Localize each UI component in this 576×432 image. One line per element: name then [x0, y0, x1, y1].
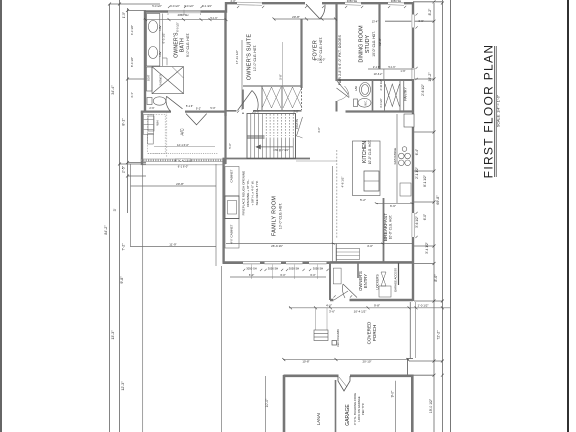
svg-text:8'-1 1/2": 8'-1 1/2": [423, 175, 427, 187]
svg-text:6'-4": 6'-4": [415, 149, 419, 155]
svg-text:1'-5": 1'-5": [122, 12, 126, 18]
garage left wall: [283, 375, 286, 432]
svg-text:PORCH: PORCH: [372, 325, 377, 342]
svg-text:26'-9 16": 26'-9 16": [271, 244, 283, 248]
svg-text:4'-0": 4'-0": [230, 0, 235, 3]
bath bottom wall: [141, 110, 171, 112]
svg-text:3050 SH: 3050 SH: [289, 267, 300, 271]
coats closet: [296, 114, 303, 159]
svg-text:69'-8": 69'-8": [436, 195, 440, 205]
svg-text:COATS: COATS: [295, 119, 299, 129]
svg-text:2'-10 1/2": 2'-10 1/2": [379, 79, 383, 90]
svg-text:3'-1": 3'-1": [130, 92, 134, 98]
stairs: [247, 114, 296, 159]
svg-text:9'-2": 9'-2": [196, 107, 201, 111]
svg-text:6'-0 1/2": 6'-0 1/2": [176, 22, 180, 32]
entry door: [305, 2, 325, 19]
porch/garage junction notch: [408, 359, 414, 376]
svg-text:5'-1 6": 5'-1 6": [388, 65, 395, 69]
svg-text:3'-6": 3'-6": [418, 19, 423, 23]
svg-text:5'-1 6": 5'-1 6": [210, 16, 217, 20]
svg-text:PER TYP.: PER TYP.: [361, 403, 365, 416]
svg-text:9'-0": 9'-0": [391, 390, 395, 398]
svg-text:FAMILY ROOM: FAMILY ROOM: [272, 196, 278, 236]
svg-text:4050 SH: 4050 SH: [178, 13, 189, 17]
kitchen top wall: [346, 110, 414, 112]
svg-text:10'-0" CLG. HGT.: 10'-0" CLG. HGT.: [389, 215, 393, 240]
owner's bath vanity: [147, 14, 168, 67]
foyer / dining wall: [335, 4, 337, 81]
svg-text:6x6 COLUMN: 6x6 COLUMN: [336, 329, 340, 346]
svg-text:5'-1 6": 5'-1 6": [186, 104, 193, 108]
owners entry bottom wall: [330, 299, 413, 301]
svg-text:SEE DETAIL TYP.: SEE DETAIL TYP.: [255, 180, 259, 205]
svg-text:6'-6": 6'-6": [390, 204, 396, 208]
svg-text:10'-0" CLG. HGT.: 10'-0" CLG. HGT.: [253, 45, 257, 71]
svg-text:GARAGE: GARAGE: [345, 404, 351, 426]
svg-text:20'-10": 20'-10": [363, 360, 372, 364]
svg-text:6'-0 1/2": 6'-0 1/2": [170, 4, 180, 8]
top-left wall y=11.5: [145, 3, 413, 205]
owners entry top wall: [330, 261, 413, 264]
svg-text:2'-0": 2'-0": [293, 110, 298, 114]
right counter: [396, 114, 398, 203]
svg-text:13'-3": 13'-3": [111, 330, 115, 340]
svg-text:5'-8": 5'-8": [278, 74, 282, 79]
svg-text:OWNER'S SUITE: OWNER'S SUITE: [247, 34, 253, 81]
garage right wall: [411, 375, 414, 432]
svg-text:2'-6 1/2": 2'-6 1/2": [421, 84, 425, 96]
breakfast west wall: [383, 198, 385, 262]
fireplace wall: [222, 159, 224, 263]
svg-text:3'-6 1/2": 3'-6 1/2": [415, 216, 419, 228]
svg-text:ATTIC ACCESS: ATTIC ACCESS: [174, 159, 191, 162]
svg-text:8'-1": 8'-1": [122, 118, 126, 126]
svg-text:11'-9": 11'-9": [169, 243, 176, 247]
svg-text:SCALE: 1/4" = 1'-0": SCALE: 1/4" = 1'-0": [496, 94, 500, 127]
svg-text:SEAT: SEAT: [147, 74, 150, 81]
svg-text:10'-6 2": 10'-6 2": [374, 72, 383, 76]
svg-text:OPENING + 37" PL.: OPENING + 37" PL.: [246, 179, 250, 207]
closet X doors (suite): [262, 86, 302, 110]
svg-text:5'-3 1/2": 5'-3 1/2": [152, 4, 162, 8]
powder top wall: [337, 79, 414, 81]
svg-text:3'-4 1/2": 3'-4 1/2": [425, 242, 429, 254]
svg-text:5'-1 3/4": 5'-1 3/4": [202, 4, 212, 8]
porch steps: [314, 308, 328, 341]
svg-text:12'-3": 12'-3": [121, 381, 125, 391]
pantry shelves + X door: [385, 84, 400, 107]
svg-text:7'-2": 7'-2": [122, 243, 126, 251]
svg-text:34'-4": 34'-4": [111, 85, 115, 95]
svg-text:SHOWER: SHOWER: [160, 74, 163, 85]
svg-text:6'-0": 6'-0": [423, 214, 427, 220]
svg-text:4'-0": 4'-0": [230, 238, 234, 243]
owner's entry details: [333, 248, 398, 298]
A/C east wall: [224, 116, 226, 164]
svg-text:+ 58" H. x 4'-0" W.: + 58" H. x 4'-0" W.: [251, 180, 255, 205]
svg-text:19'-0 1/2": 19'-0 1/2": [429, 398, 433, 413]
breakfast bay wall: [335, 244, 337, 263]
svg-text:13'-4": 13'-4": [372, 19, 379, 23]
svg-text:3'-0 1/2": 3'-0 1/2": [379, 98, 383, 108]
svg-text:PAIR 2-8"X 6'-0" PKT. DOORS: PAIR 2-8"X 6'-0" PKT. DOORS: [338, 34, 342, 85]
svg-text:10'-0" CLG. HGT.: 10'-0" CLG. HGT.: [279, 203, 283, 229]
svg-text:5'-2": 5'-2": [360, 198, 366, 202]
svg-text:10'-0": 10'-0": [265, 398, 269, 407]
svg-text:4'-0": 4'-0": [320, 58, 326, 62]
svg-text:2'-5": 2'-5": [122, 165, 126, 173]
svg-text:LOCKERS: LOCKERS: [376, 274, 380, 289]
suite closet dim line: [282, 42, 284, 86]
svg-text:5'-6": 5'-6": [228, 143, 232, 149]
svg-text:2'-6": 2'-6": [149, 106, 154, 110]
svg-text:9'-0" CLG. HGT.: 9'-0" CLG. HGT.: [186, 33, 190, 57]
svg-text:10'-4 1/2": 10'-4 1/2": [354, 310, 367, 314]
kitchen: [353, 114, 415, 203]
A/C unit + attic stair: [148, 112, 218, 158]
svg-text:6'-0 1/2": 6'-0 1/2": [184, 4, 194, 8]
svg-text:3050 SH: 3050 SH: [347, 0, 358, 3]
shower: [147, 67, 184, 94]
svg-text:BATH: BATH: [180, 38, 186, 52]
suite east wall (foyer west): [300, 19, 302, 88]
right wall window: [411, 15, 414, 28]
porch right edge: [409, 302, 411, 358]
svg-text:W.C.: W.C.: [364, 100, 367, 106]
garage top wall: [284, 374, 339, 377]
svg-text:9'-8": 9'-8": [374, 304, 380, 308]
svg-text:20'-8": 20'-8": [176, 182, 184, 186]
svg-text:4'-0": 4'-0": [367, 244, 373, 248]
svg-text:LAV: LAV: [158, 25, 162, 30]
svg-text:17'-11 1/2": 17'-11 1/2": [235, 50, 239, 64]
svg-text:CABINET: CABINET: [230, 224, 234, 237]
svg-text:9'-8": 9'-8": [120, 276, 124, 284]
svg-text:A/C: A/C: [180, 128, 185, 135]
svg-text:3'-6": 3'-6": [329, 310, 335, 314]
svg-text:6'-0": 6'-0": [280, 273, 285, 277]
fireplace: [225, 167, 239, 249]
dimension ticks: [108, 0, 444, 376]
dashed archway family/kitchen: [336, 150, 338, 238]
svg-text:3': 3': [113, 208, 117, 211]
svg-text:4'-0": 4'-0": [326, 304, 332, 308]
svg-text:COVERED: COVERED: [367, 321, 372, 344]
svg-text:3050 SH: 3050 SH: [391, 0, 402, 3]
svg-text:16'-2": 16'-2": [428, 72, 432, 82]
svg-text:2'-0": 2'-0": [254, 110, 259, 114]
svg-text:3050 SH: 3050 SH: [313, 267, 324, 271]
svg-text:W/H: W/H: [156, 120, 160, 125]
svg-text:6'-0": 6'-0": [310, 273, 315, 277]
svg-text:1'-6": 1'-6": [400, 69, 405, 73]
svg-text:3050 SH: 3050 SH: [246, 267, 257, 271]
porch columns: [332, 341, 337, 346]
wall junction tick specks: [168, 6, 418, 298]
linen closet: [144, 115, 154, 135]
svg-text:6'-3 1/2": 6'-3 1/2": [162, 33, 166, 44]
svg-text:DINING ROOM: DINING ROOM: [359, 25, 365, 63]
scattered small dimension texts: [130, 0, 429, 314]
svg-text:GARAGE ACCESS: GARAGE ACCESS: [394, 268, 398, 292]
svg-text:17R @ 7 3/4": 17R @ 7 3/4": [273, 148, 289, 152]
svg-text:6'-0": 6'-0": [249, 273, 254, 277]
svg-text:3'-0": 3'-0": [317, 127, 321, 133]
svg-text:LAV: LAV: [158, 51, 162, 56]
svg-text:6'-3 1/2": 6'-3 1/2": [130, 25, 134, 35]
svg-text:LANAI: LANAI: [316, 413, 321, 425]
svg-text:2'-1 6": 2'-1 6": [373, 65, 380, 69]
dining east wall: [378, 4, 380, 69]
svg-text:ENTRY: ENTRY: [363, 274, 368, 288]
powder room fixtures: [337, 83, 372, 108]
svg-text:8'-0 1/2": 8'-0 1/2": [130, 57, 134, 67]
hatched attic band: [141, 159, 226, 165]
toilet: [147, 97, 166, 105]
powder/pantry dividers: [372, 80, 374, 112]
svg-text:4'-8 1/2": 4'-8 1/2": [341, 177, 345, 188]
suite entry door: [237, 91, 259, 113]
lanai/garage divider: [335, 380, 337, 432]
svg-text:LAV: LAV: [354, 86, 358, 91]
svg-text:GAS RANGE: GAS RANGE: [393, 148, 397, 165]
right wall lower part: [412, 205, 414, 301]
svg-text:84'-2": 84'-2": [104, 225, 108, 235]
svg-text:5'-0": 5'-0": [210, 106, 215, 110]
svg-text:8'-2": 8'-2": [428, 8, 432, 16]
svg-text:1'-0 1/2": 1'-0 1/2": [418, 304, 429, 308]
closet walls top of hall: [226, 110, 302, 112]
svg-text:72'-2": 72'-2": [437, 330, 441, 340]
svg-text:STUDY: STUDY: [365, 34, 371, 53]
svg-text:PANTRY: PANTRY: [403, 87, 407, 101]
svg-text:2'-1 1/2": 2'-1 1/2": [415, 167, 419, 179]
garage door vestibule: [338, 376, 350, 391]
svg-text:10'-0" CLG. HGT.: 10'-0" CLG. HGT.: [372, 31, 376, 57]
svg-text:6'-1 6'-0": 6'-1 6'-0": [178, 165, 189, 169]
svg-text:12'-0": 12'-0": [378, 38, 382, 46]
svg-text:3050 SH: 3050 SH: [268, 267, 279, 271]
svg-text:FIRST FLOOR PLAN: FIRST FLOOR PLAN: [482, 44, 496, 179]
svg-text:10'-0" CLG. HGT.: 10'-0" CLG. HGT.: [368, 140, 372, 165]
svg-text:20'-8": 20'-8": [292, 15, 300, 19]
svg-text:10'-8": 10'-8": [302, 360, 309, 364]
svg-text:8'-0": 8'-0": [434, 274, 438, 282]
gallery wall below stairs: [223, 158, 311, 160]
bath door arc: [166, 96, 182, 111]
windows on top walls: [168, 2, 415, 237]
family room bottom wall: [223, 261, 331, 264]
svg-text:CABINET: CABINET: [230, 169, 234, 182]
bath / suite wall: [224, 12, 226, 116]
svg-text:12'-1 6'-0": 12'-1 6'-0": [177, 143, 189, 147]
family room bottom windows: [243, 261, 327, 279]
svg-text:FIREPLACE ROUGH OPENING: FIREPLACE ROUGH OPENING: [242, 170, 246, 215]
